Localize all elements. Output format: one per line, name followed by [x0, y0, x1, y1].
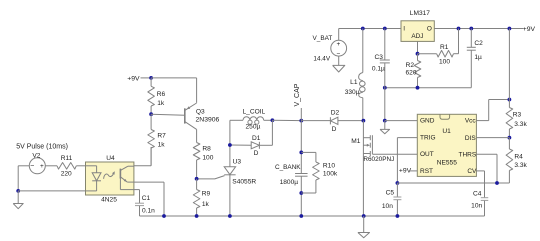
svg-text:10n: 10n [382, 203, 393, 210]
node Vcc/R3 junction [508, 98, 512, 102]
svg-text:1k: 1k [158, 141, 166, 148]
wire LM317 output to +9V [434, 28, 523, 30]
label R3 [513, 111, 522, 118]
opto phototransistor [120, 166, 133, 189]
wire +9V rail down to R3 [508, 29, 510, 100]
value 3.3k (R4) [514, 162, 527, 169]
wire +9V flag to R6 [141, 77, 152, 79]
wire +9V to Q3 emitter corner [151, 77, 197, 79]
wire D1 to coil-right [259, 120, 272, 145]
label L_COIL [243, 109, 266, 116]
node C3 bottom junction [383, 86, 387, 90]
regulator U2 LM317 body [401, 21, 434, 42]
svg-text:OUT: OUT [420, 151, 434, 158]
svg-text:+9V: +9V [127, 75, 140, 82]
svg-text:1µ: 1µ [474, 54, 482, 61]
svg-text:D2: D2 [331, 110, 340, 117]
wire analog ground net [385, 87, 472, 89]
voltage source V2 [29, 158, 45, 174]
pin label GND [420, 118, 435, 125]
svg-text:THRS: THRS [458, 152, 476, 159]
wire THRS pin [476, 154, 497, 183]
svg-text:C2: C2 [474, 40, 483, 47]
wire ground net to NE555 GND [384, 88, 386, 121]
optocoupler U4 body [86, 162, 134, 195]
pin label ADJ [411, 33, 423, 40]
node SCR anode / D1 junction [228, 143, 232, 147]
label R2 [406, 62, 415, 69]
svg-text:330µ: 330µ [345, 89, 360, 96]
value 0.1n (C1) [142, 208, 155, 215]
node +9V/R6 junction [149, 76, 153, 80]
value 1µ (C2) [474, 54, 482, 61]
capacitor C5 [393, 183, 401, 216]
svg-text:LM317: LM317 [410, 10, 430, 17]
label U3 [233, 159, 242, 166]
svg-text:0.1µ: 0.1µ [372, 65, 385, 72]
resistor R9 [193, 179, 200, 216]
wire V_CAP node down [300, 121, 302, 174]
wire TRIG pin [397, 138, 417, 183]
svg-text:U4: U4 [106, 155, 115, 162]
voltage source V_BAT [331, 29, 347, 66]
label C3 [374, 54, 383, 61]
resistor R10 [301, 152, 319, 193]
svg-text:220: 220 [61, 171, 72, 178]
value D (D2) [332, 126, 337, 133]
svg-text:R11: R11 [61, 155, 73, 162]
value 10n (C5) [382, 203, 393, 210]
node C2 top junction [469, 27, 473, 31]
wire ground junction to opto cathode [18, 190, 85, 192]
node R2 bottom junction [416, 86, 420, 90]
svg-text:+9V: +9V [399, 168, 412, 175]
label R9 [202, 190, 211, 197]
node V2 ground junction [16, 189, 20, 193]
svg-text:D: D [332, 126, 337, 133]
capacitor C1 [135, 203, 144, 216]
wire ground rail [140, 215, 485, 217]
svg-text:+: + [40, 163, 44, 170]
pin label RST [420, 168, 433, 175]
pin label O [427, 26, 432, 33]
node rail junction (M1 source) [362, 214, 366, 218]
value 250µ (L_COIL) [246, 124, 261, 131]
label +9V at RST [399, 168, 412, 175]
svg-text:C3: C3 [374, 54, 383, 61]
node R6/R7 junction [149, 112, 153, 116]
pin label CV [467, 168, 477, 175]
node C_BANK top junction [299, 151, 303, 155]
svg-text:D: D [254, 150, 259, 157]
capacitor C3 [380, 29, 390, 88]
node DIS junction [508, 136, 512, 140]
svg-text:10n: 10n [471, 203, 482, 210]
svg-text:620: 620 [405, 70, 416, 77]
value 100 (R1) [439, 58, 450, 65]
value 0.1µ (C3) [372, 65, 385, 72]
svg-text:V_CAP: V_CAP [294, 83, 301, 106]
label R6 [157, 91, 166, 98]
svg-text:R6: R6 [157, 91, 166, 98]
svg-text:100: 100 [439, 58, 450, 65]
node rail junction (C_BANK) [299, 214, 303, 218]
svg-text:C4: C4 [473, 191, 482, 198]
svg-text:V_BAT: V_BAT [313, 35, 333, 42]
wire switch node to M1 drain [362, 121, 364, 216]
wire Q3 emitter drop [196, 78, 198, 103]
svg-text:R10: R10 [323, 163, 335, 170]
node THRS junction [495, 181, 499, 185]
value S4055R (U3) [232, 178, 256, 185]
svg-text:14.4V: 14.4V [313, 55, 330, 62]
svg-text:100k: 100k [323, 171, 338, 178]
wire V_CAP stub [300, 108, 302, 121]
node rail junction (opto emitter) [162, 214, 166, 218]
svg-text:−: − [30, 163, 34, 170]
pin label DIS [465, 135, 477, 142]
opto LED [86, 166, 102, 191]
svg-text:R1: R1 [440, 44, 449, 51]
node ADJ junction [416, 52, 420, 56]
svg-text:TRIG: TRIG [420, 135, 436, 142]
label M1 [351, 138, 360, 145]
wire V_CAP node to D2 [301, 120, 330, 122]
svg-text:4N25: 4N25 [101, 196, 117, 203]
label R10 [323, 163, 335, 170]
value R6020PNJ (M1) [363, 156, 394, 163]
ground at V2 [13, 191, 23, 209]
timer U1 NE555 body [417, 114, 476, 176]
label D2 [331, 110, 340, 117]
node R8/R9/gate junction [195, 177, 199, 181]
node rail junction (C5) [396, 214, 400, 218]
svg-text:C_BANK: C_BANK [275, 164, 301, 171]
value 330µ (L1) [345, 89, 360, 96]
label R7 [157, 132, 166, 139]
resistor R8 [193, 143, 200, 179]
wire THRS net horizontal [397, 182, 509, 184]
label C1 [142, 195, 151, 202]
value 3.3k (R3) [514, 121, 527, 128]
wire opto base to C1 [134, 190, 140, 204]
ground at rail [358, 216, 370, 238]
node switch node junction [362, 119, 366, 123]
label C4 [473, 191, 482, 198]
inductor L_COIL [243, 117, 264, 125]
svg-text:NE555: NE555 [437, 160, 457, 167]
svg-text:3.3k: 3.3k [514, 121, 527, 128]
inductor L1 [359, 29, 366, 121]
value 14.4V [313, 55, 330, 62]
svg-text:U3: U3 [233, 159, 242, 166]
value 4N25 (U4) [101, 196, 117, 203]
wire D2 to switch node [338, 120, 364, 122]
svg-text:I: I [403, 26, 405, 33]
value D (D1) [254, 150, 259, 157]
capacitor C4 [481, 198, 489, 216]
node NE555 GND junction [383, 119, 387, 123]
node rail junction (R9) [195, 214, 199, 218]
svg-text:1k: 1k [202, 201, 210, 208]
label C_BANK [275, 164, 301, 171]
svg-text:C5: C5 [386, 189, 395, 196]
resistor R11 [57, 163, 86, 170]
node V_CAP junction [299, 119, 303, 123]
wire CV pin [476, 171, 484, 198]
wire D1 junction to V_CAP node [272, 119, 301, 121]
svg-text:+: + [337, 41, 341, 48]
wire V2 plus to R11 [45, 165, 57, 167]
ground below V_BAT [333, 65, 345, 72]
svg-text:L_COIL: L_COIL [243, 109, 266, 116]
label R11 [61, 155, 73, 162]
resistor R7 [148, 114, 155, 165]
wire SCR cathode to rail [229, 175, 231, 216]
node coil-right / D1 junction [271, 118, 275, 122]
label R1 [440, 44, 449, 51]
svg-text:R3: R3 [513, 111, 522, 118]
label LM317 [410, 10, 430, 17]
svg-text:Vcc: Vcc [465, 118, 477, 125]
value 1k (R7) [158, 141, 166, 148]
svg-text:2N3906: 2N3906 [196, 116, 220, 123]
label +9V right [523, 26, 536, 33]
node R1 top junction [457, 27, 461, 31]
node R3 top junction [508, 27, 512, 31]
pin label I [403, 26, 405, 33]
resistor R6 [148, 78, 155, 114]
svg-text:L1: L1 [350, 79, 358, 86]
svg-text:1800µ: 1800µ [280, 179, 299, 186]
pin label TRIG [420, 135, 436, 142]
capacitor C2 [467, 29, 476, 88]
value 1k (R9) [202, 201, 210, 208]
wire V2 minus to ground corner [18, 166, 29, 191]
value 1800µ (C_BANK) [280, 179, 299, 186]
wire Vcc pin [476, 100, 509, 121]
node rail junction (SCR) [228, 214, 232, 218]
wire M1 gate to NE555 OUT [372, 153, 417, 155]
svg-text:R7: R7 [157, 132, 166, 139]
pin label Vcc [465, 118, 477, 125]
label U1 [442, 128, 451, 135]
diode D2 [330, 117, 338, 124]
svg-text:R4: R4 [514, 153, 523, 160]
value 620 (R2) [405, 70, 416, 77]
svg-text:D1: D1 [252, 135, 261, 142]
resistor R4 [506, 138, 513, 183]
capacitor C_BANK [295, 174, 308, 217]
svg-text:R9: R9 [202, 190, 211, 197]
resistor R1 [418, 29, 459, 58]
value 100 (R8) [202, 154, 213, 161]
wire battery positive rail [339, 28, 401, 30]
svg-text:M1: M1 [351, 138, 360, 145]
svg-text:R6020PNJ: R6020PNJ [363, 156, 394, 163]
thyristor U3 [197, 167, 236, 179]
svg-text:R2: R2 [406, 62, 415, 69]
value NE555 (U1) [437, 160, 457, 167]
wire ADJ pin [417, 41, 419, 53]
diode D1 [251, 142, 259, 149]
svg-text:GND: GND [420, 118, 435, 125]
value 220 (R11) [61, 171, 72, 178]
svg-text:Q3: Q3 [196, 109, 205, 116]
label U4 [106, 155, 115, 162]
svg-text:5V Pulse (10ms): 5V Pulse (10ms) [16, 144, 68, 151]
svg-text:ADJ: ADJ [411, 33, 423, 40]
svg-text:CV: CV [467, 168, 477, 175]
resistor R2 [414, 54, 421, 88]
label R4 [514, 153, 523, 160]
opto light arrow [104, 171, 115, 179]
node battery rail / C3 top junction [383, 27, 387, 31]
value 1k (R6) [157, 100, 165, 107]
svg-text:0.1n: 0.1n [142, 208, 155, 215]
label V_BAT [313, 35, 333, 42]
pin label THRS [458, 152, 476, 159]
svg-text:3.3k: 3.3k [514, 162, 527, 169]
label D1 [252, 135, 261, 142]
wire opto emitter to rail [134, 182, 164, 216]
wire coil to D1 junction [264, 119, 273, 121]
wire SCR anode junction to D1 [230, 144, 251, 146]
label Q3 [196, 109, 205, 116]
svg-text:R8: R8 [202, 145, 211, 152]
label 5V Pulse (10ms) [16, 144, 68, 151]
wire DIS pin [476, 137, 509, 139]
value 2N3906 (Q3) [196, 116, 220, 123]
svg-text:U1: U1 [442, 128, 451, 135]
label V2 [32, 152, 40, 159]
value 100k (R10) [323, 171, 338, 178]
svg-text:O: O [427, 26, 432, 33]
pin label OUT [420, 151, 434, 158]
wire coil-left corner [230, 119, 243, 121]
svg-text:250µ: 250µ [246, 124, 261, 131]
node C_BANK bottom junction [299, 191, 303, 195]
resistor R3 [506, 100, 513, 138]
label C5 [386, 189, 395, 196]
transistor Q3 [185, 103, 197, 143]
label +9V left [127, 75, 140, 82]
value 10n (C4) [471, 203, 482, 210]
label C2 [474, 40, 483, 47]
svg-text:RST: RST [420, 168, 433, 175]
label V_CAP [294, 83, 301, 106]
svg-text:100: 100 [202, 154, 213, 161]
svg-text:+9V: +9V [523, 26, 536, 33]
svg-text:DIS: DIS [465, 135, 477, 142]
label L1 [350, 79, 358, 86]
wire coil-left down to SCR [229, 120, 231, 167]
wire Q3 base [151, 114, 185, 115]
svg-text:−: − [337, 51, 341, 58]
node battery rail / L1 top junction [361, 27, 365, 31]
wire +9V flag to RST [410, 170, 417, 172]
svg-text:C1: C1 [142, 195, 151, 202]
wire NE555 GND pin [385, 120, 418, 122]
transistor M1 [363, 135, 372, 156]
svg-text:S4055R: S4055R [232, 178, 256, 185]
wire opto collector to R7 [134, 147, 151, 166]
svg-text:1k: 1k [157, 100, 165, 107]
node TRIG/THRS junction [396, 181, 400, 185]
label R8 [202, 145, 211, 152]
ground at NE555 GND [380, 121, 390, 134]
